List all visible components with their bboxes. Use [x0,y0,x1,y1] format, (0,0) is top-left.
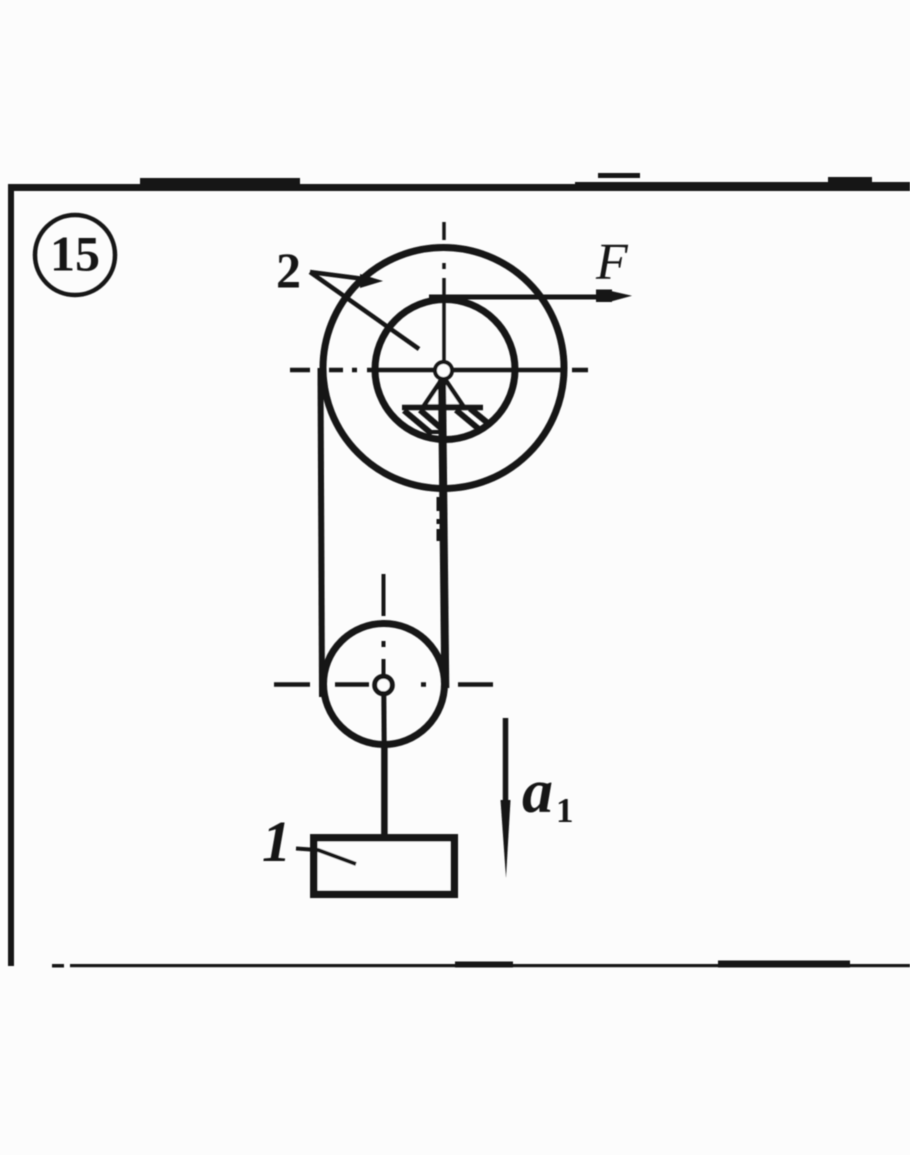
svg-text:2: 2 [276,242,301,298]
svg-text:a: a [522,758,553,826]
svg-text:F: F [595,234,629,291]
svg-text:15: 15 [50,226,100,282]
svg-text:1: 1 [262,809,291,874]
svg-text:1: 1 [556,791,574,830]
